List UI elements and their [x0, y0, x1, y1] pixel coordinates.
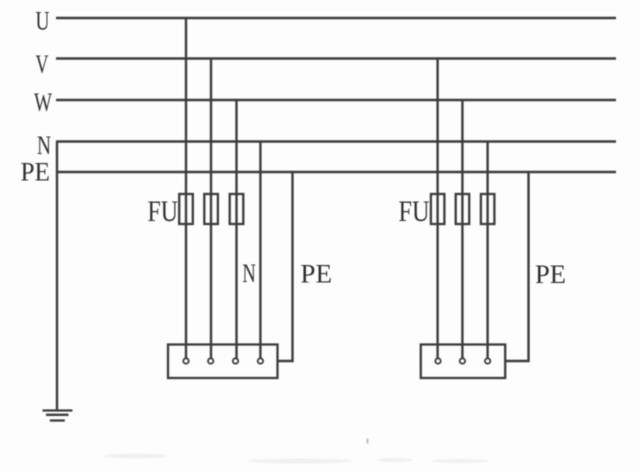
wire phase V drop to FU (right branch)	[436, 59, 438, 359]
terminal circle left 2	[208, 358, 213, 363]
wire phase W drop to FU (left branch)	[235, 100, 237, 359]
bus line U	[56, 17, 616, 19]
terminal block left	[168, 345, 278, 379]
wire phase W drop to FU (right branch)	[461, 100, 463, 359]
bus line N	[56, 140, 616, 142]
wire phase U drop to FU (left branch)	[185, 18, 187, 359]
svg-text:W: W	[34, 88, 52, 117]
terminal circle right 3	[485, 358, 490, 363]
wire phase V drop to FU (left branch)	[210, 59, 212, 359]
terminal block right	[421, 345, 505, 379]
wire N/PE down to earth	[56, 142, 58, 410]
svg-text:FU: FU	[399, 195, 430, 228]
svg-text:PE: PE	[21, 158, 51, 187]
fuse FU left 3	[230, 194, 244, 224]
terminal circle left 4 (N)	[258, 358, 263, 363]
ground symbol bar 3	[50, 419, 65, 421]
ground symbol bar 1	[43, 409, 73, 411]
svg-text:V: V	[36, 50, 49, 79]
wire PE drop (left branch)	[278, 172, 293, 361]
svg-text:N: N	[242, 259, 256, 288]
terminal circle right 1	[435, 358, 440, 363]
svg-text:FU: FU	[148, 195, 179, 228]
wire PE drop (right branch)	[505, 172, 528, 361]
fuse FU right 1	[431, 194, 445, 224]
bus line PE	[56, 171, 616, 173]
fuse FU left 1	[179, 194, 193, 224]
fuse FU right 2	[456, 194, 470, 224]
terminal circle left 3	[233, 358, 238, 363]
wire N drop (left branch)	[259, 142, 261, 359]
ground symbol bar 2	[46, 414, 69, 416]
bus line V	[56, 57, 616, 59]
fuse FU right 3	[481, 194, 495, 224]
terminal circle right 2	[460, 358, 465, 363]
faint speck artifact	[367, 439, 369, 444]
bus line W	[56, 99, 616, 101]
svg-text:U: U	[36, 7, 50, 36]
wire N drop to FU (right branch)	[486, 142, 488, 359]
fuse FU left 2	[204, 194, 218, 224]
terminal circle left 1	[183, 358, 188, 363]
svg-text:N: N	[37, 131, 51, 160]
svg-text:PE: PE	[300, 260, 332, 289]
svg-text:PE: PE	[535, 260, 566, 289]
